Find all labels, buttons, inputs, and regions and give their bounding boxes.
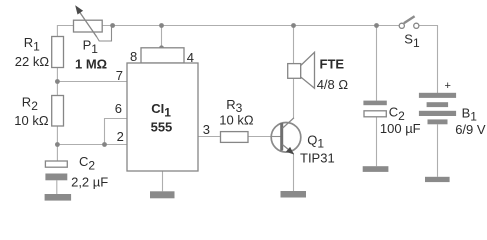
capacitor C2 2.2uF [45,161,67,180]
svg-text:2: 2 [117,129,124,144]
svg-text:10 kΩ: 10 kΩ [14,113,49,128]
node P1 wiper junction on rail [110,23,115,28]
node rail junction above 555 [159,23,164,28]
node junction R1 R2 pin7 [55,79,60,84]
wire from supply rail down to 555 pins 8 and 4 [161,26,163,48]
wire from 555 bottom to ground [162,171,164,191]
svg-text:FTE: FTE [320,56,345,71]
resistor R3 [221,132,249,143]
wire 555 pin 3 to R3 [198,136,221,138]
node rail junction above speaker [291,23,296,28]
svg-text:1 MΩ: 1 MΩ [75,57,107,72]
battery B1 [419,93,456,125]
wire from S1 to top-right corner [419,25,438,27]
speaker FTE [288,52,315,88]
wire from battery B1 minus terminal to ground [437,124,439,177]
wire Q1 emitter to ground [293,154,295,192]
node junction at 555 pins 8-4 block [159,45,164,50]
wire from R1 top up and right to P1 left terminal [57,26,73,37]
wire R3 to Q1 base [248,136,272,138]
svg-text:6: 6 [115,101,122,116]
svg-text:10 kΩ: 10 kΩ [219,113,254,128]
svg-text:2,2 µF: 2,2 µF [71,175,108,190]
wire top supply rail from P1 to switch S1 [102,25,399,27]
svg-text:100 µF: 100 µF [380,121,421,136]
svg-text:4/8 Ω: 4/8 Ω [317,77,349,92]
ground below C2 2.2uF [45,194,72,201]
wire supply rail down through speaker to Q1 collector [293,26,295,119]
svg-text:TIP31: TIP31 [300,150,335,165]
svg-text:6/9 V: 6/9 V [455,122,486,137]
node junction R2 C2 pin2 [55,142,60,147]
transistor Q1 TIP31 [271,118,301,155]
wire from R1 bottom to R2 top [56,68,58,96]
capacitor C2 100uF electrolytic [363,101,386,117]
svg-text:3: 3 [203,122,210,137]
svg-text:+: + [445,80,451,92]
svg-text:555: 555 [151,120,173,135]
ground below battery B1 [425,177,450,182]
svg-text:8: 8 [130,49,137,64]
wire supply rail down to capacitor C2 100uF [376,26,378,101]
wire from C2 bottom plate to ground [56,180,58,194]
potentiometer P1 [74,5,112,41]
switch S1 [399,16,419,28]
svg-text:7: 7 [116,68,123,83]
wire down to battery B1 plus terminal [437,25,439,93]
wire node junction to 555 pin 7 [57,81,127,83]
wire C2 100uF bottom plate to ground [376,117,378,166]
resistor R2 [52,96,64,127]
op-amp U1 555 timer body CI1 [127,48,198,171]
node rail junction above C2 100uF [374,23,379,28]
ground below C2 100uF [363,166,389,172]
ground below 555 [150,191,175,198]
wire from R2 bottom down to C2 [56,126,58,161]
resistor R1 [52,37,64,68]
svg-text:4: 4 [187,50,194,65]
wire node junction to 555 pin 2 [57,144,127,146]
wire branch from pin 2 net up to 555 pin 6 [105,119,128,145]
ground below Q1 emitter [281,191,307,198]
node junction pin6 branch [102,142,107,147]
svg-text:22 kΩ: 22 kΩ [15,54,50,69]
